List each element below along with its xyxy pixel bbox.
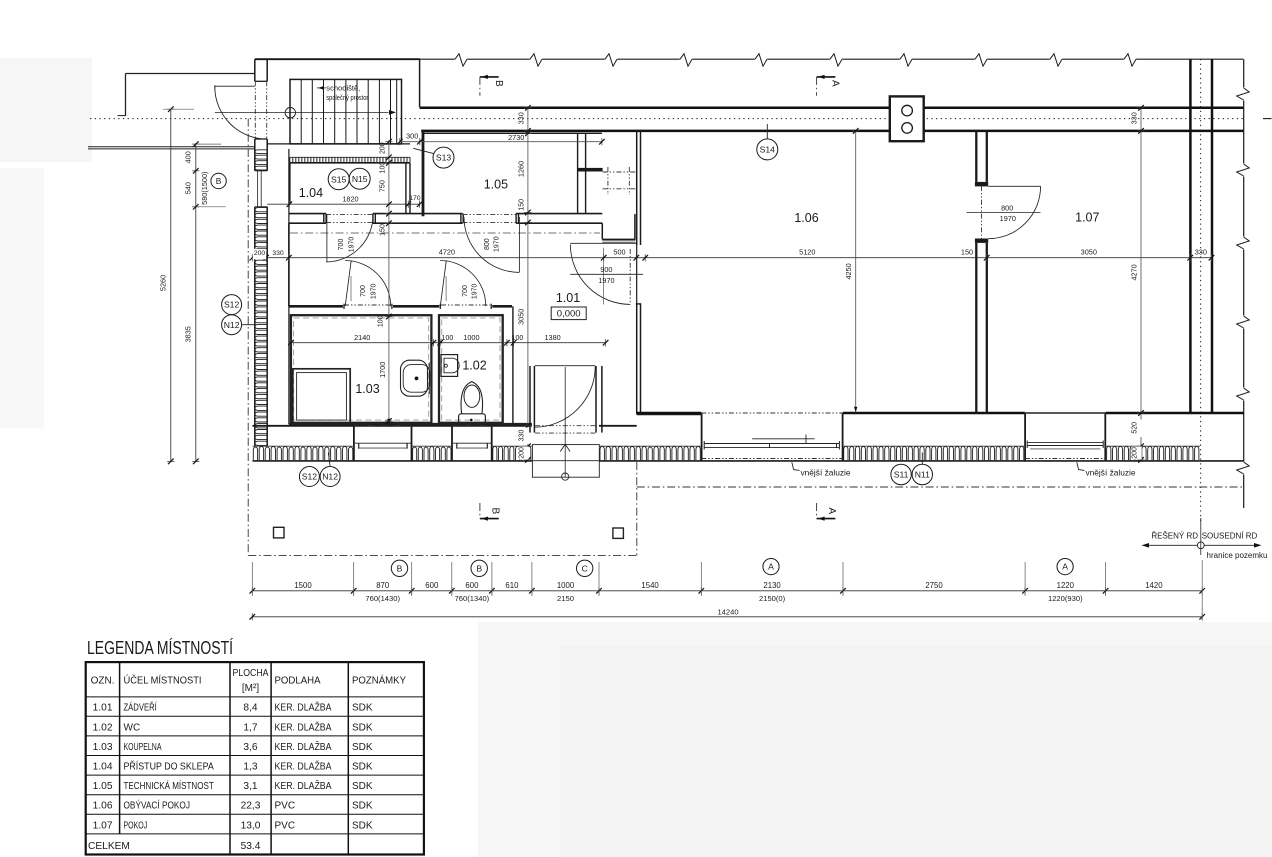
svg-text:760(1430): 760(1430) bbox=[365, 594, 400, 603]
svg-text:S14: S14 bbox=[760, 145, 776, 155]
svg-text:vnější žaluzie: vnější žaluzie bbox=[801, 469, 852, 478]
svg-text:1.01: 1.01 bbox=[556, 291, 580, 305]
svg-text:PŘÍSTUP DO SKLEPA: PŘÍSTUP DO SKLEPA bbox=[124, 760, 215, 773]
svg-text:1,3: 1,3 bbox=[243, 762, 257, 773]
svg-text:schodiště,: schodiště, bbox=[326, 84, 360, 93]
svg-text:1.07: 1.07 bbox=[93, 820, 113, 831]
svg-text:5120: 5120 bbox=[799, 248, 815, 257]
svg-text:330: 330 bbox=[518, 430, 525, 442]
svg-text:1970: 1970 bbox=[598, 276, 614, 285]
svg-text:200: 200 bbox=[518, 447, 525, 459]
svg-text:S15: S15 bbox=[331, 174, 347, 184]
svg-text:4270: 4270 bbox=[1130, 264, 1139, 280]
svg-text:1970: 1970 bbox=[370, 284, 377, 300]
svg-text:700: 700 bbox=[462, 285, 469, 297]
svg-text:3835: 3835 bbox=[184, 326, 193, 342]
svg-text:1820: 1820 bbox=[342, 194, 358, 203]
svg-text:KOUPELNA: KOUPELNA bbox=[124, 742, 162, 753]
svg-text:3,1: 3,1 bbox=[243, 781, 257, 792]
svg-text:SDK: SDK bbox=[352, 703, 373, 714]
svg-text:1.02: 1.02 bbox=[93, 722, 113, 733]
svg-text:PODLAHA: PODLAHA bbox=[275, 675, 321, 686]
svg-text:2730: 2730 bbox=[508, 133, 524, 142]
svg-text:330: 330 bbox=[1129, 112, 1138, 124]
svg-text:1970: 1970 bbox=[494, 236, 501, 252]
svg-text:SDK: SDK bbox=[352, 722, 373, 733]
svg-text:SDK: SDK bbox=[352, 820, 373, 831]
svg-text:N12: N12 bbox=[224, 320, 240, 330]
svg-text:KER. DLAŽBA: KER. DLAŽBA bbox=[275, 720, 332, 733]
svg-text:870: 870 bbox=[376, 581, 390, 590]
svg-text:WC: WC bbox=[124, 722, 141, 733]
svg-text:500: 500 bbox=[613, 248, 625, 257]
svg-text:SDK: SDK bbox=[352, 762, 373, 773]
svg-text:1.03: 1.03 bbox=[355, 382, 379, 396]
svg-text:1380: 1380 bbox=[544, 333, 560, 342]
svg-text:150: 150 bbox=[961, 248, 973, 257]
svg-text:2150: 2150 bbox=[557, 594, 574, 603]
svg-text:hranice pozemku: hranice pozemku bbox=[1207, 551, 1268, 560]
svg-text:KER. DLAŽBA: KER. DLAŽBA bbox=[275, 779, 332, 792]
svg-text:1000: 1000 bbox=[557, 581, 575, 590]
svg-text:N12: N12 bbox=[322, 472, 338, 482]
svg-text:2150(0): 2150(0) bbox=[759, 594, 786, 603]
svg-text:B: B bbox=[397, 563, 403, 573]
svg-text:ŘEŠENÝ RD: ŘEŠENÝ RD bbox=[1151, 532, 1198, 541]
svg-text:800: 800 bbox=[484, 238, 491, 250]
svg-text:14240: 14240 bbox=[717, 607, 738, 616]
svg-text:A: A bbox=[826, 507, 837, 514]
svg-text:1500: 1500 bbox=[294, 581, 312, 590]
svg-text:1.05: 1.05 bbox=[484, 178, 508, 192]
svg-text:1970: 1970 bbox=[348, 237, 355, 253]
svg-text:600: 600 bbox=[465, 581, 479, 590]
svg-text:C: C bbox=[582, 563, 588, 573]
svg-text:200: 200 bbox=[379, 142, 386, 154]
svg-text:3,6: 3,6 bbox=[243, 742, 257, 753]
svg-text:PVC: PVC bbox=[275, 820, 296, 831]
svg-text:22,3: 22,3 bbox=[241, 801, 261, 812]
svg-text:750: 750 bbox=[377, 180, 386, 192]
svg-text:S12: S12 bbox=[224, 300, 240, 310]
svg-text:4250: 4250 bbox=[844, 263, 853, 279]
svg-text:ÚČEL MÍSTNOSTI: ÚČEL MÍSTNOSTI bbox=[124, 673, 202, 686]
svg-text:700: 700 bbox=[338, 239, 345, 251]
svg-text:B: B bbox=[216, 176, 222, 186]
svg-text:A: A bbox=[1062, 562, 1068, 572]
svg-text:KER. DLAŽBA: KER. DLAŽBA bbox=[275, 701, 332, 714]
svg-text:400: 400 bbox=[184, 151, 193, 163]
svg-text:4720: 4720 bbox=[439, 248, 455, 257]
svg-text:330: 330 bbox=[272, 250, 284, 257]
svg-text:SOUSEDNÍ RD: SOUSEDNÍ RD bbox=[1202, 532, 1258, 541]
svg-text:ZÁDVEŘÍ: ZÁDVEŘÍ bbox=[124, 701, 157, 714]
svg-text:1420: 1420 bbox=[1145, 581, 1163, 590]
svg-text:SDK: SDK bbox=[352, 801, 373, 812]
svg-text:1.07: 1.07 bbox=[1075, 211, 1099, 225]
svg-text:společný prostor: společný prostor bbox=[326, 93, 368, 102]
svg-text:N15: N15 bbox=[352, 174, 368, 184]
svg-text:100: 100 bbox=[378, 315, 385, 327]
svg-text:100: 100 bbox=[512, 335, 524, 342]
svg-text:S13: S13 bbox=[436, 153, 452, 163]
svg-text:N11: N11 bbox=[915, 470, 930, 480]
svg-text:3050: 3050 bbox=[516, 309, 525, 325]
svg-text:1000: 1000 bbox=[463, 333, 479, 342]
svg-text:100: 100 bbox=[442, 335, 454, 342]
svg-text:1220(930): 1220(930) bbox=[1048, 594, 1083, 603]
svg-text:SDK: SDK bbox=[352, 742, 373, 753]
svg-text:POKOJ: POKOJ bbox=[124, 820, 148, 831]
svg-text:1.04: 1.04 bbox=[93, 762, 113, 773]
svg-text:PLOCHA: PLOCHA bbox=[233, 668, 269, 679]
svg-text:200: 200 bbox=[254, 250, 266, 257]
svg-text:B: B bbox=[489, 507, 500, 514]
svg-text:200: 200 bbox=[1132, 447, 1139, 459]
svg-text:1.03: 1.03 bbox=[93, 742, 113, 753]
svg-text:150: 150 bbox=[379, 224, 386, 236]
svg-text:KER. DLAŽBA: KER. DLAŽBA bbox=[275, 760, 332, 773]
svg-text:1.06: 1.06 bbox=[794, 211, 818, 225]
svg-text:330: 330 bbox=[516, 112, 525, 124]
svg-text:1.05: 1.05 bbox=[93, 781, 113, 792]
svg-text:1.04: 1.04 bbox=[299, 186, 323, 200]
svg-text:760(1340): 760(1340) bbox=[455, 594, 490, 603]
svg-text:580(1500): 580(1500) bbox=[200, 172, 209, 205]
svg-text:300: 300 bbox=[406, 132, 418, 141]
svg-text:1260: 1260 bbox=[516, 161, 525, 177]
svg-text:1970: 1970 bbox=[1000, 214, 1016, 223]
svg-text:A: A bbox=[768, 562, 774, 572]
svg-text:KER. DLAŽBA: KER. DLAŽBA bbox=[275, 740, 332, 753]
svg-text:[M²]: [M²] bbox=[242, 683, 259, 694]
svg-text:1540: 1540 bbox=[641, 581, 659, 590]
svg-text:LEGENDA MÍSTNOSTÍ: LEGENDA MÍSTNOSTÍ bbox=[87, 638, 233, 658]
svg-text:170: 170 bbox=[409, 195, 421, 202]
svg-text:3050: 3050 bbox=[1081, 248, 1097, 257]
svg-text:1.02: 1.02 bbox=[462, 359, 486, 373]
svg-text:540: 540 bbox=[184, 182, 193, 194]
svg-text:S12: S12 bbox=[302, 472, 318, 482]
svg-text:800: 800 bbox=[1001, 203, 1013, 212]
svg-text:CELKEM: CELKEM bbox=[88, 841, 130, 852]
svg-text:13,0: 13,0 bbox=[241, 820, 261, 831]
svg-text:2130: 2130 bbox=[763, 581, 781, 590]
svg-text:B: B bbox=[476, 563, 482, 573]
svg-text:1,7: 1,7 bbox=[243, 722, 257, 733]
svg-text:1220: 1220 bbox=[1057, 581, 1075, 590]
svg-text:OZN.: OZN. bbox=[91, 675, 115, 686]
svg-text:330: 330 bbox=[1195, 248, 1207, 257]
svg-text:0,000: 0,000 bbox=[557, 309, 581, 320]
svg-text:vnější žaluzie: vnější žaluzie bbox=[1086, 469, 1137, 478]
svg-text:700: 700 bbox=[360, 285, 367, 297]
svg-text:2140: 2140 bbox=[354, 333, 370, 342]
svg-text:610: 610 bbox=[505, 581, 519, 590]
svg-text:1700: 1700 bbox=[378, 362, 387, 378]
svg-text:1970: 1970 bbox=[472, 284, 479, 300]
svg-text:100: 100 bbox=[379, 162, 386, 174]
svg-text:OBÝVACÍ POKOJ: OBÝVACÍ POKOJ bbox=[124, 799, 191, 812]
svg-text:5260: 5260 bbox=[158, 275, 167, 291]
svg-text:53.4: 53.4 bbox=[241, 841, 261, 852]
svg-text:1.01: 1.01 bbox=[93, 703, 113, 714]
svg-text:2750: 2750 bbox=[925, 581, 943, 590]
svg-text:S11: S11 bbox=[894, 470, 909, 480]
svg-text:B: B bbox=[493, 80, 504, 87]
svg-text:SDK: SDK bbox=[352, 781, 373, 792]
svg-text:POZNÁMKY: POZNÁMKY bbox=[352, 673, 406, 686]
svg-text:1.06: 1.06 bbox=[93, 801, 113, 812]
svg-text:TECHNICKÁ MÍSTNOST: TECHNICKÁ MÍSTNOST bbox=[124, 779, 214, 792]
svg-text:900: 900 bbox=[600, 265, 612, 274]
svg-text:8,4: 8,4 bbox=[243, 703, 257, 714]
svg-text:150: 150 bbox=[518, 199, 525, 211]
svg-text:A: A bbox=[830, 80, 841, 87]
svg-text:600: 600 bbox=[425, 581, 439, 590]
svg-text:520: 520 bbox=[1132, 422, 1139, 434]
svg-text:PVC: PVC bbox=[275, 801, 296, 812]
